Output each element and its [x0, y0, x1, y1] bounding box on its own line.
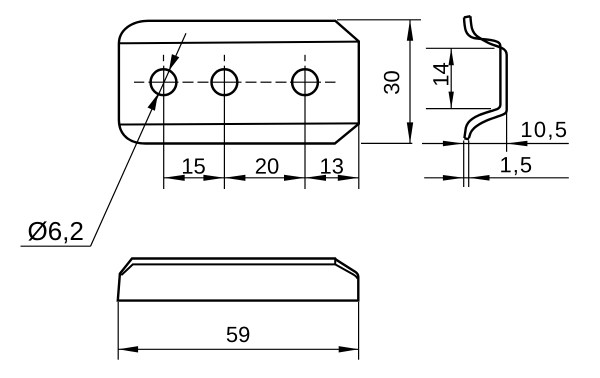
arrow right of 13: [338, 175, 359, 181]
extension line bottom for 14: [426, 108, 491, 110]
center tick above hole 3: [304, 55, 306, 61]
arrow left 59: [118, 346, 138, 352]
leader line for diameter: [91, 33, 187, 246]
label 13: [321, 158, 343, 174]
extension line bottom tip left: [463, 141, 465, 188]
arrow left-pointing at 468.7: [469, 175, 490, 181]
label diameter 6,2: [28, 221, 82, 243]
bend line top: [119, 42, 359, 44]
label 15: [183, 158, 205, 173]
profile outer line (side view S-profile): [464, 17, 500, 138]
hole 1: [151, 69, 177, 95]
leader arrow lower (points up-right to hole edge): [148, 94, 158, 111]
bottom view outline: [118, 259, 358, 301]
extension line bottom for 30: [361, 142, 412, 144]
dimension line 1,5: [424, 177, 569, 179]
label 59: [227, 327, 250, 343]
arrow down 30: [407, 122, 413, 143]
leader arrow upper (points down-left to hole edge): [169, 54, 179, 71]
dimension line 15-20-13: [164, 177, 359, 179]
dimension line 30: [409, 20, 411, 144]
center tick above hole 1: [163, 55, 165, 61]
extension line hole 3: [304, 66, 306, 189]
label 10,5: [522, 122, 566, 140]
extension line web right for 10,5: [506, 111, 508, 152]
center tick above hole 2: [223, 55, 225, 61]
dimension line 59: [118, 348, 358, 350]
extension line bottom tip right: [468, 141, 470, 188]
label 14 (rotated): [433, 63, 448, 85]
bottom view inner bend line: [121, 264, 357, 278]
dimension line 10,5: [422, 143, 569, 145]
arrow down 14: [449, 92, 454, 109]
dimension line 14: [450, 48, 452, 108]
hole 3: [292, 69, 318, 95]
hole 2: [212, 69, 238, 95]
leader underline: [21, 245, 91, 247]
extension line top for 14: [426, 47, 495, 49]
extension line right edge: [358, 124, 360, 189]
extension line right for 59: [358, 302, 360, 360]
arrow up 14: [449, 48, 454, 65]
extension line left for 59: [117, 302, 119, 360]
centerline horizontal through holes: [134, 81, 336, 83]
plate outline (front view): [119, 21, 359, 144]
arrows at 224 (butterfly): [203, 175, 224, 181]
label 30 (rotated): [384, 71, 400, 94]
arrow left-pointing at 506.6: [507, 141, 528, 147]
extension line top for 30: [337, 19, 421, 21]
label 1,5: [501, 157, 531, 175]
profile bottom cap: [464, 138, 469, 139]
arrow right-pointing at 463.7: [443, 141, 464, 147]
extension line hole 2: [223, 66, 225, 189]
profile inner line: [469, 16, 507, 138]
label 20: [256, 158, 279, 174]
arrows at 305 (butterfly): [284, 175, 305, 181]
arrow right-pointing at 463.7: [443, 175, 464, 181]
arrow left of 15: [164, 175, 185, 181]
bend line bottom: [119, 123, 359, 124]
extension line hole 1: [163, 66, 165, 189]
arrow up 30: [407, 20, 413, 41]
bottom view flange end tick: [334, 259, 336, 265]
arrow right 59: [339, 346, 359, 352]
profile top cap: [464, 16, 470, 17]
